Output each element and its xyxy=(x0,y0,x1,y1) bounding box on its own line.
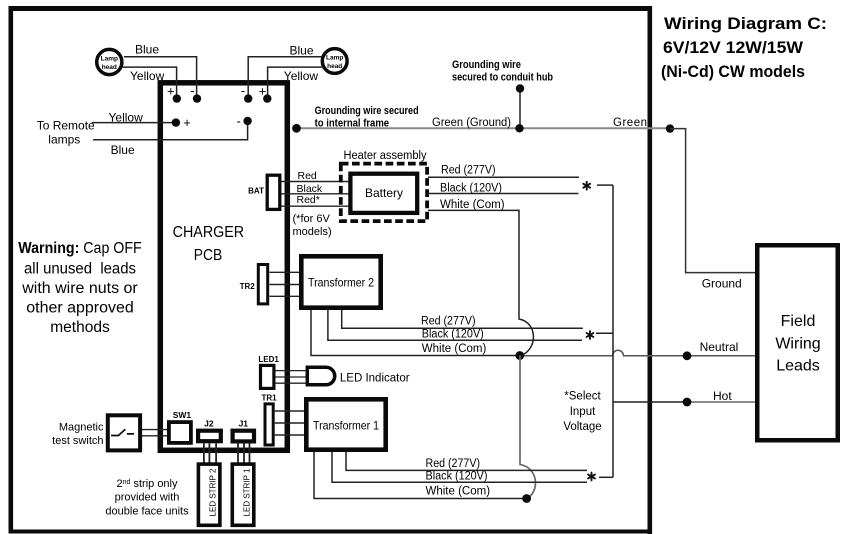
svg-text:Blue: Blue xyxy=(290,44,314,58)
svg-text:TR1: TR1 xyxy=(262,393,278,402)
to remote lamps label xyxy=(37,118,95,146)
wire blue right lamp xyxy=(248,44,321,99)
svg-text:Magnetic: Magnetic xyxy=(59,422,104,434)
asterisk select 2 xyxy=(587,331,594,339)
wire T2 white com to neutral xyxy=(311,310,755,356)
svg-text:Transformer 1: Transformer 1 xyxy=(313,419,379,433)
wires J1 to strip 1 xyxy=(238,443,250,464)
wire asterisk link 2 xyxy=(596,332,613,334)
svg-text:J2: J2 xyxy=(204,418,214,428)
svg-text:Neutral: Neutral xyxy=(700,340,739,354)
junction dot terminal 3 xyxy=(244,94,252,102)
junction dot hot xyxy=(683,398,692,407)
junction dot green right xyxy=(666,124,674,132)
svg-text:LED1: LED1 xyxy=(258,355,279,364)
divider line xyxy=(648,6,653,534)
voltage select bus xyxy=(612,185,614,477)
svg-text:White (Com): White (Com) xyxy=(422,343,487,355)
junction dot white bus T1 xyxy=(522,494,531,503)
wires J2 to strip 2 xyxy=(204,443,216,464)
svg-text:PCB: PCB xyxy=(194,247,223,264)
terminal + top row left xyxy=(167,84,175,99)
wire yellow right lamp xyxy=(268,67,322,98)
svg-text:Yellow: Yellow xyxy=(130,69,165,83)
svg-text:LED STRIP 1: LED STRIP 1 xyxy=(243,468,252,516)
wire BAT black xyxy=(281,183,349,195)
svg-text:LED Indicator: LED Indicator xyxy=(340,373,410,385)
svg-text:methods: methods xyxy=(50,319,110,336)
wire battery red 277V xyxy=(428,165,579,178)
title xyxy=(661,14,827,81)
junction dot terminal 1 xyxy=(173,94,181,102)
svg-text:Voltage: Voltage xyxy=(563,421,601,433)
wire hot xyxy=(613,389,755,403)
svg-text:Heater assembly: Heater assembly xyxy=(344,150,427,162)
svg-text:head: head xyxy=(327,63,342,70)
svg-text:Yellow: Yellow xyxy=(109,110,144,124)
svg-text:Blue: Blue xyxy=(135,43,159,57)
heater assembly dashed box xyxy=(341,150,427,221)
svg-text:Yellow: Yellow xyxy=(284,69,319,83)
svg-text:secured to conduit hub: secured to conduit hub xyxy=(452,72,553,84)
wires switch to SW1 xyxy=(142,430,168,436)
wires LED1 to indicator xyxy=(276,371,307,384)
svg-text:Blue: Blue xyxy=(111,143,135,157)
transformer 1 T1 xyxy=(306,399,385,449)
select input voltage note xyxy=(563,391,601,434)
enclosure border top xyxy=(9,6,653,11)
junction dot terminal 2 xyxy=(193,94,201,102)
wire T1 red 277V xyxy=(346,452,587,470)
junction dot remote - xyxy=(237,114,252,129)
svg-text:lamps: lamps xyxy=(48,133,80,147)
wire T2 black 120V xyxy=(328,310,582,340)
svg-text:with wire nuts or: with wire nuts or xyxy=(21,280,138,297)
svg-text:SW1: SW1 xyxy=(173,410,192,420)
svg-text:Wiring: Wiring xyxy=(775,336,820,353)
wire T2 red 277V xyxy=(342,310,583,328)
wire battery black 120V xyxy=(428,183,578,195)
wire T1 black 120V xyxy=(332,452,587,483)
svg-text:Red: Red xyxy=(298,170,317,182)
wire battery white com xyxy=(428,199,533,356)
svg-text:White (Com): White (Com) xyxy=(426,486,491,498)
component J2 xyxy=(198,418,221,441)
component SW1 xyxy=(169,410,191,443)
LED indicator D1 xyxy=(307,367,409,385)
wire BAT red xyxy=(281,170,349,182)
wires TR1 to transformer 1 xyxy=(275,411,304,435)
svg-text:Lamp: Lamp xyxy=(326,55,343,62)
svg-text:Black (120V): Black (120V) xyxy=(422,328,484,340)
svg-text:Warning: Cap OFF: Warning: Cap OFF xyxy=(18,240,142,257)
svg-text:Transformer 2: Transformer 2 xyxy=(308,276,374,290)
svg-text:Ground: Ground xyxy=(702,277,742,291)
charger PCB U1 xyxy=(160,83,287,451)
svg-text:Black (120V): Black (120V) xyxy=(440,183,502,195)
wire BAT red* xyxy=(281,194,349,206)
svg-text:provided with: provided with xyxy=(115,492,180,504)
svg-text:all unused leads: all unused leads xyxy=(24,261,136,278)
svg-text:*Select: *Select xyxy=(564,391,601,403)
lamp head left xyxy=(97,49,122,74)
junction dot terminal 4 xyxy=(263,94,271,102)
svg-text:test switch: test switch xyxy=(52,435,103,447)
asterisk select 1 xyxy=(583,182,590,190)
wire yellow left lamp xyxy=(123,67,177,98)
wires TR2 to transformer 2 xyxy=(270,272,300,296)
magnetic test switch S1 xyxy=(52,415,140,450)
svg-text:other approved: other approved xyxy=(26,300,134,317)
svg-text:Lamp: Lamp xyxy=(101,56,118,63)
junction dot green start xyxy=(292,124,301,133)
svg-text:To Remote: To Remote xyxy=(37,118,95,132)
terminal + top row right xyxy=(259,84,267,99)
svg-text:double face units: double face units xyxy=(105,506,189,518)
wire yellow remote xyxy=(92,110,176,124)
svg-text:CHARGER: CHARGER xyxy=(173,224,245,241)
enclosure border left xyxy=(9,6,14,530)
transformer 2 T2 xyxy=(301,256,380,307)
svg-text:models): models) xyxy=(293,226,332,238)
svg-text:BAT: BAT xyxy=(248,187,264,196)
junction dot remote + xyxy=(172,115,191,130)
svg-text:Input: Input xyxy=(570,406,596,418)
wire blue left lamp xyxy=(124,43,197,99)
svg-text:Field: Field xyxy=(781,313,816,330)
svg-text:Battery: Battery xyxy=(365,186,403,200)
svg-text:Hot: Hot xyxy=(713,389,732,403)
wire asterisk link 1 xyxy=(597,184,613,186)
junction dot white bus T2 xyxy=(515,351,524,360)
svg-text:Red (277V): Red (277V) xyxy=(426,458,481,470)
field wiring leads box xyxy=(757,245,838,440)
svg-text:Red*: Red* xyxy=(297,194,320,206)
grounding note conduit hub xyxy=(452,59,553,84)
component LED1 xyxy=(258,355,279,388)
svg-text:Black (120V): Black (120V) xyxy=(426,471,488,483)
svg-text:-: - xyxy=(237,114,241,129)
svg-text:6V/12V 12W/15W: 6V/12V 12W/15W xyxy=(663,38,804,57)
svg-text:+: + xyxy=(183,115,191,130)
svg-text:Grounding wire: Grounding wire xyxy=(452,59,521,71)
svg-text:(Ni-Cd) CW models: (Ni-Cd) CW models xyxy=(661,62,805,81)
svg-text:TR2: TR2 xyxy=(240,282,256,291)
warning note xyxy=(18,240,142,336)
svg-text:(*for 6V: (*for 6V xyxy=(293,213,331,225)
junction dot conduit hub xyxy=(516,84,524,92)
terminal - top row left xyxy=(190,83,194,98)
grounding note internal frame xyxy=(315,105,419,130)
svg-text:Grounding wire secured: Grounding wire secured xyxy=(315,105,419,117)
svg-text:White (Com): White (Com) xyxy=(440,199,505,211)
svg-text:Red (277V): Red (277V) xyxy=(421,315,476,327)
wire T1 white com xyxy=(314,452,527,499)
svg-text:J1: J1 xyxy=(239,418,249,428)
white bus lower segment xyxy=(520,356,535,499)
note 2nd strip xyxy=(105,478,189,518)
svg-text:Leads: Leads xyxy=(776,358,820,375)
svg-text:-: - xyxy=(241,83,245,98)
component J1 xyxy=(233,418,254,441)
svg-text:Wiring Diagram C:: Wiring Diagram C: xyxy=(664,14,827,33)
LED strip 2 xyxy=(198,464,220,525)
lamp head right xyxy=(322,49,347,74)
terminal - top row right xyxy=(241,83,245,98)
wire asterisk link 3 xyxy=(599,476,613,478)
LED strip 1 xyxy=(232,464,254,525)
svg-text:Red (277V): Red (277V) xyxy=(441,165,496,177)
asterisk select 3 xyxy=(588,473,595,481)
component TR2 xyxy=(240,265,268,304)
svg-text:Green (Ground): Green (Ground) xyxy=(432,117,511,129)
component BAT xyxy=(248,175,280,209)
wire blue remote xyxy=(93,121,248,157)
component TR1 xyxy=(262,393,278,445)
battery B1 xyxy=(350,174,417,213)
svg-text:Green: Green xyxy=(613,117,647,129)
note for 6V models xyxy=(293,213,332,238)
wire ground to field box xyxy=(670,129,755,291)
junction dot green mid xyxy=(515,124,523,132)
enclosure border bottom xyxy=(9,530,653,534)
wire conduit hub stub xyxy=(519,89,521,129)
svg-text:LED STRIP 2: LED STRIP 2 xyxy=(209,468,218,516)
junction dot neutral xyxy=(683,340,739,360)
wire green ground xyxy=(297,117,671,129)
svg-text:head: head xyxy=(102,64,117,71)
